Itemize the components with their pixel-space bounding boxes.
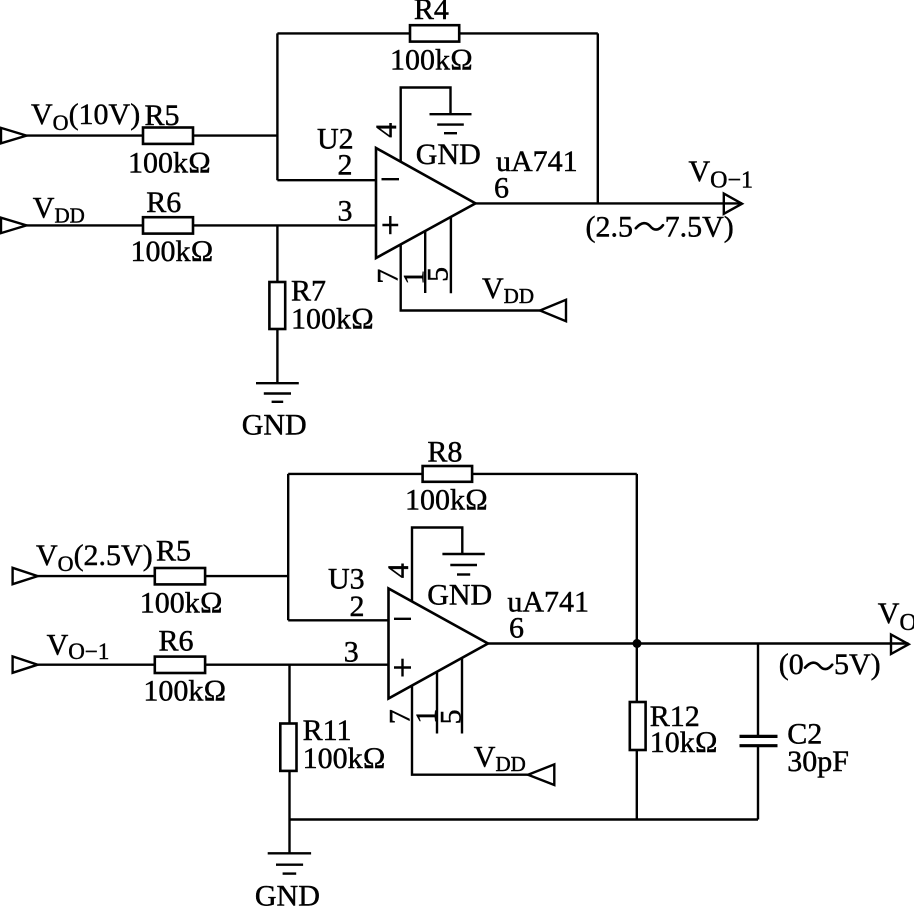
svg-text:R5: R5 [145,99,180,132]
input port VDD [1,218,27,233]
svg-text:6: 6 [494,171,509,204]
pin1 wire [424,231,426,294]
svg-text:10kΩ: 10kΩ [650,726,718,759]
resistor R4 [410,25,459,41]
wire C2 to rail [757,746,759,820]
wire feedback top (R8) [288,473,637,475]
pin7 wire to VDD (U3) [412,686,528,775]
wire R12 to rail [636,750,638,820]
power port VDD (pin7 U2) [540,300,566,321]
svg-text:4: 4 [382,563,415,578]
capacitor C2 [740,736,778,745]
svg-text:VO(10V): VO(10V) [31,98,140,135]
svg-text:GND: GND [255,880,320,906]
svg-text:R6: R6 [146,186,181,219]
wire feedback top [277,32,597,34]
svg-text:100kΩ: 100kΩ [303,742,386,775]
svg-text:GND: GND [427,579,492,612]
BOTTOM CIRCUIT [13,436,914,906]
svg-text:R8: R8 [427,436,462,469]
tilde (2.5~7.5V) [636,223,663,229]
wire R7 branch [276,225,278,283]
wire R12 branch [636,644,638,703]
pin1 wire (U3) [436,672,438,734]
minus sign (pin2 U3) [394,618,411,620]
junction dot [633,639,642,648]
svg-text:30pF: 30pF [787,745,849,778]
pin5 wire (U3) [461,658,463,734]
svg-text:4: 4 [370,123,403,138]
wire feedback right vertical [597,33,599,203]
svg-text:3: 3 [344,636,359,669]
input port V_O(2.5V) [13,568,38,584]
pin5 wire [450,217,452,294]
wire pin2 horizontal [288,619,388,621]
wire pin2 horizontal [277,179,376,181]
svg-text:100kΩ: 100kΩ [405,484,488,517]
resistor R5 (bottom) [155,568,205,584]
pin4 wire to ground [401,88,451,163]
resistor R12 [630,702,646,750]
svg-text:2: 2 [350,590,365,623]
svg-text:2: 2 [338,149,353,182]
wire R6 to pin3 [193,224,376,226]
svg-text:3: 3 [338,195,353,228]
TOP CIRCUIT [1,0,753,442]
wire output U3 [488,642,909,644]
svg-text:R6: R6 [159,625,194,658]
wire input2 to R6 [27,224,144,226]
pin7 wire to VDD [401,244,540,311]
tilde (0~5V) [805,663,832,669]
ground symbol (pin4 U2) [430,114,472,133]
svg-text:100kΩ: 100kΩ [390,44,473,77]
svg-text:6: 6 [509,612,524,645]
resistor R6 (bottom) [155,657,205,673]
op-amp U3 [389,589,489,699]
svg-text:R4: R4 [414,0,449,26]
wire R11 branch [288,665,290,724]
input port V_O(10V) [1,128,27,143]
minus sign (pin2) [382,178,400,180]
resistor R11 [280,724,296,771]
pin4 wire to ground (U3) [412,528,462,602]
plus sign (pin3 U3) [394,659,411,677]
wire node vertical (left feedback leg) [287,474,289,620]
output port V_O [891,635,909,655]
svg-text:R5: R5 [156,535,191,568]
svg-text:100kΩ: 100kΩ [291,303,374,336]
op-amp U2 [376,148,476,258]
wire R5 to inverting node [205,575,288,577]
svg-text:GND: GND [242,409,307,442]
wire R7 to ground [276,329,278,383]
svg-text:100kΩ: 100kΩ [140,587,223,620]
svg-text:(2.5: (2.5 [586,211,634,244]
resistor R6 [143,217,193,233]
svg-text:5: 5 [421,267,454,282]
wire C2 branch [757,644,759,737]
output port V_O-1 [724,194,742,214]
svg-text:GND: GND [416,138,481,171]
svg-text:(0: (0 [779,648,804,681]
wire R5 to inverting node [193,134,277,136]
resistor R7 [269,282,285,329]
svg-text:5: 5 [434,709,467,724]
ground symbol (bottom) [268,853,311,873]
resistor R8 [423,466,473,482]
svg-text:100kΩ: 100kΩ [143,675,226,708]
ground rail wire [290,818,759,820]
svg-text:VO(2.5V): VO(2.5V) [36,539,153,576]
svg-text:5V): 5V) [834,648,881,681]
wire node vertical (left feedback leg) [276,33,278,180]
svg-text:100kΩ: 100kΩ [131,235,214,268]
power port VDD (pin7 U3) [528,764,554,785]
wire output U2 [476,202,743,204]
ground symbol (pin4 U3) [442,554,484,575]
plus sign (pin3) [382,216,398,234]
resistor R5 [143,128,193,144]
wire R11 to ground [288,771,290,853]
wire input2 to R6 [38,664,155,666]
ground symbol (R7) [256,383,299,402]
input port V_O-1 [13,656,38,672]
wire input1 to R5 [38,575,155,577]
wire R6 to pin3 [205,664,388,666]
wire input1 to R5 [27,134,144,136]
svg-text:100kΩ: 100kΩ [128,147,211,180]
wire feedback right vertical [636,474,638,644]
svg-text:7.5V): 7.5V) [665,211,734,244]
